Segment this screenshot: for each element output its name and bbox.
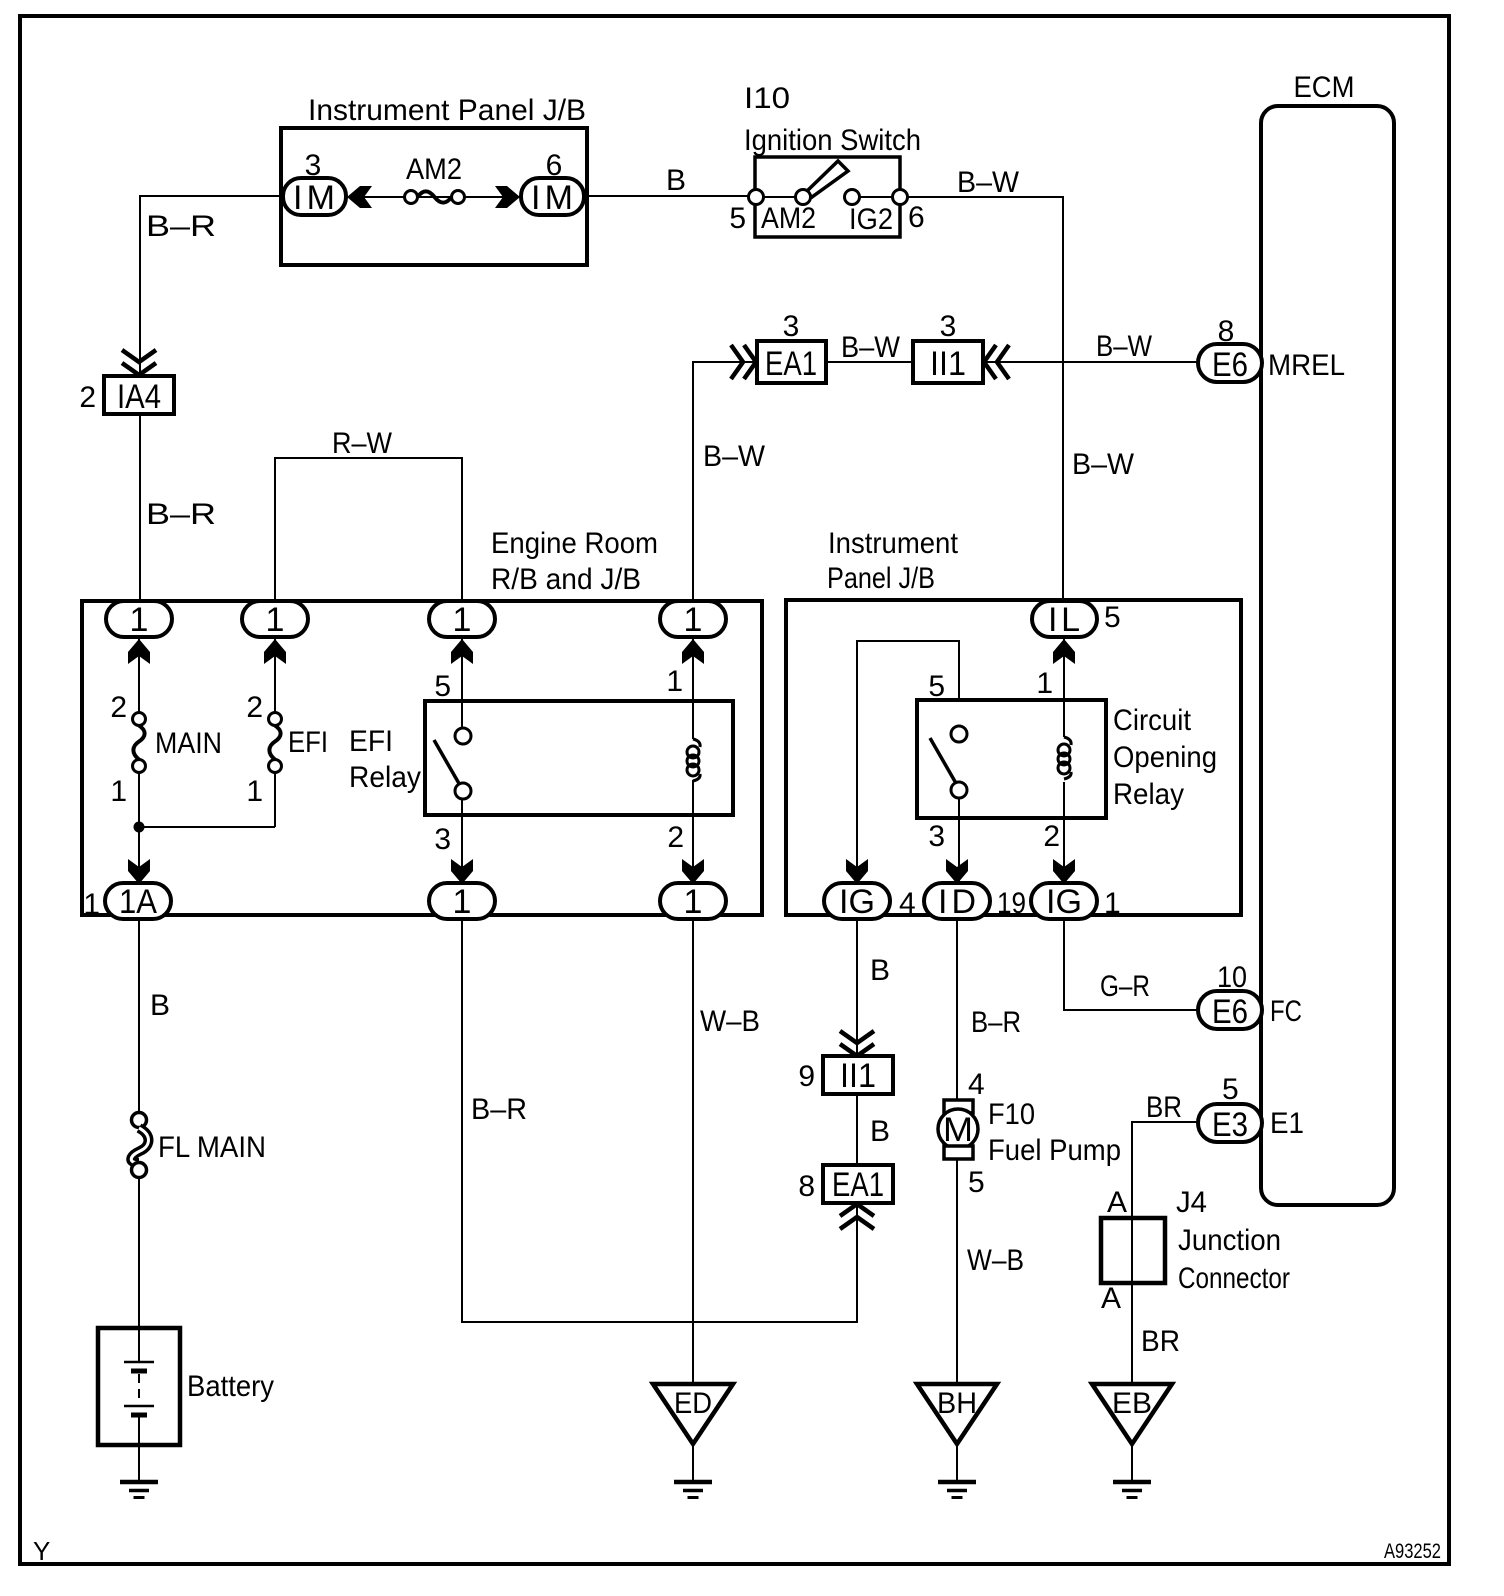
arrow down into IG pin1 connector [1053,859,1075,884]
svg-text:Circuit: Circuit [1113,704,1192,737]
wire B from battery 1A connector to FL MAIN [138,883,140,1113]
svg-text:2: 2 [246,691,263,724]
svg-text:B–R: B–R [471,1093,527,1126]
svg-text:IM: IM [293,179,335,217]
connector II1 pin 9 with chevrons [798,1031,893,1095]
svg-text:E6: E6 [1212,993,1248,1031]
wire Circuit Opening Relay coil pin2 to IG connector [1063,782,1065,883]
svg-text:B–R: B–R [146,210,216,243]
connector II1 pin 3 with chevrons [913,310,1009,383]
wire BR from ECM E1 E3 through J4 to EB ground [1132,1122,1197,1384]
svg-text:EFI: EFI [349,725,393,758]
wire ED triangle to ground [692,1444,694,1481]
wire II1 pin9 to EA1 pin8 (B) [856,1094,858,1165]
svg-text:B–R: B–R [146,498,216,531]
arrow down into oval 1 (relay pin3 bottom) [451,859,473,884]
connector E3 pin 5 E1 [1198,1073,1304,1144]
svg-text:2: 2 [1043,820,1060,853]
wire R-W bridge from EFI fuse to EFI relay pin5 [275,458,462,601]
svg-text:1: 1 [666,665,683,698]
Instrument Panel J/B (right) box [786,527,1241,915]
fuse EFI [246,691,328,808]
svg-text:A93252: A93252 [1384,1540,1441,1563]
svg-text:5: 5 [1104,601,1121,634]
svg-text:8: 8 [798,1170,815,1203]
wire MAIN fuse to junction and 1A connector [138,772,140,883]
bus arrow right (into IM pin6) [495,186,520,208]
wire FL MAIN to battery [138,1177,140,1362]
wire B-R from ID pin19 to fuel pump [956,883,958,1100]
svg-text:AM2: AM2 [406,153,462,186]
svg-text:R–W: R–W [332,427,393,460]
wire B-R from IA4 to Engine Room J/B [139,414,141,602]
COR switch pins 5-3 [928,670,967,853]
svg-text:5: 5 [968,1166,985,1199]
svg-text:IG: IG [839,883,875,921]
connector oval 1 (EFI fuse top) [242,601,308,639]
ignition switch I10 [729,82,924,237]
svg-text:Instrument: Instrument [828,527,959,560]
ground symbol (EB) [1113,1482,1151,1498]
fusible link FL MAIN [131,1113,266,1178]
wire B-W from ignition switch pin6 down to IL connector [900,197,1063,601]
svg-text:II1: II1 [930,345,966,383]
svg-text:B: B [666,164,686,197]
connector oval 1 (EFI relay pin5 top) [429,601,495,639]
svg-text:W–B: W–B [700,1005,760,1038]
wire bridge COR pin5 to IG pin4 connector [857,641,959,883]
svg-text:Relay: Relay [1113,778,1184,811]
connector 1A pin 1 [83,883,171,921]
wire battery internal dashes [138,1374,140,1404]
wire junction link MAIN to EFI [139,826,275,828]
svg-text:EA1: EA1 [832,1166,884,1204]
svg-text:Engine Room: Engine Room [491,527,658,560]
svg-text:2: 2 [79,381,96,414]
svg-text:W–B: W–B [967,1244,1024,1277]
wire EB triangle to ground [1131,1444,1133,1481]
svg-text:B–W: B–W [1072,448,1135,481]
wire IG pin4 down to II1 pin9 (B) [856,883,858,1056]
wire B-W between EA1 and II1 [826,361,913,363]
wire B-W from II1 pin3 to ECM MREL E6 [983,361,1198,363]
svg-text:3: 3 [928,820,945,853]
fuse AM2 [405,153,465,204]
svg-text:E3: E3 [1212,1106,1248,1144]
svg-text:1: 1 [1036,667,1053,700]
wire W-B from fuel pump to BH ground [956,1158,958,1384]
ground triangle BH [917,1384,997,1444]
EFI relay coil pins 1-2 [666,665,700,854]
junction connector J4 [1101,1186,1290,1315]
svg-text:Junction: Junction [1178,1224,1281,1257]
arrow up into oval 1 coil [682,639,704,664]
arrow down into ID pin19 connector [946,859,968,884]
svg-text:I10: I10 [744,82,790,115]
svg-text:Opening: Opening [1113,741,1217,774]
svg-text:II1: II1 [840,1057,876,1095]
wire G-R from IG pin1 to ECM FC E6 [1064,883,1198,1010]
svg-text:B–W: B–W [703,440,766,473]
arrow down into IG pin4 connector [846,859,868,884]
svg-text:5: 5 [729,202,746,235]
svg-text:B–W: B–W [957,166,1020,199]
svg-text:R/B and J/B: R/B and J/B [491,563,641,596]
svg-text:1: 1 [83,888,100,921]
svg-text:2: 2 [110,691,127,724]
COR coil pins 1-2 [1036,667,1071,853]
fuel pump F10 motor [938,1068,1121,1199]
svg-text:B–R: B–R [971,1006,1021,1039]
svg-text:M: M [943,1111,973,1149]
svg-text:5: 5 [1222,1073,1239,1106]
svg-text:Panel J/B: Panel J/B [827,562,935,595]
connector IM pin 3 [283,149,346,217]
junction node MAIN/EFI [134,822,145,833]
svg-text:1A: 1A [119,883,157,921]
arrow up into oval 1 relay [451,639,473,664]
connector oval 1 (EFI relay coil top) [660,601,726,639]
svg-text:Battery: Battery [187,1370,274,1403]
wire battery negative to ground [138,1415,140,1481]
svg-text:Fuel Pump: Fuel Pump [988,1134,1121,1167]
svg-text:J4: J4 [1176,1186,1207,1219]
svg-text:IM: IM [531,179,573,217]
svg-text:Connector: Connector [1178,1262,1290,1295]
svg-text:ECM: ECM [1294,71,1355,104]
svg-text:19: 19 [997,887,1026,920]
svg-text:4: 4 [968,1068,985,1101]
Circuit Opening Relay box [917,700,1217,818]
wire B from IM pin3 to IA4 (B-R) [140,196,283,376]
wire EFI relay coil pin1 column [692,601,694,739]
svg-text:BH: BH [937,1387,977,1420]
battery [98,1328,274,1445]
svg-text:1: 1 [684,883,703,921]
connector oval 1 (relay pin3 bottom) [429,883,495,921]
EFI relay switch pins 5-3 [434,670,471,856]
wire inside Instrument Panel J/B through fuse AM2 [346,196,521,198]
svg-text:9: 9 [798,1060,815,1093]
connector E6 pin 8 MREL [1198,315,1345,384]
svg-text:1: 1 [130,601,149,639]
connector oval 1 (coil pin2 bottom) [660,883,726,921]
svg-text:4: 4 [899,887,916,920]
wire IL connector to Circuit Opening Relay coil pin1 [1063,637,1065,737]
svg-text:5: 5 [928,670,945,703]
wire B from IM pin6 to ignition switch pin5 [585,195,756,197]
svg-text:EB: EB [1112,1387,1152,1420]
svg-text:5: 5 [434,670,451,703]
arrow up into oval 1 EFI [264,639,286,664]
svg-text:Y: Y [33,1536,50,1566]
Instrument Panel J/B (top) box [281,94,587,265]
connector IM pin 6 [521,149,584,217]
connector ID pin 19 [924,883,1026,921]
connector IL pin 5 [1032,601,1121,639]
svg-text:3: 3 [434,823,451,856]
connector oval 1 (MAIN fuse top) [106,601,172,639]
svg-text:IA4: IA4 [117,378,161,416]
svg-text:6: 6 [546,149,563,182]
wire EFI relay pin3 down and B-R run to EA1 pin8 [462,798,857,1322]
ground triangle ED [653,1384,733,1444]
svg-text:1: 1 [246,775,263,808]
svg-text:E1: E1 [1270,1107,1304,1140]
connector IA4 pin 2 with chevrons [79,350,174,416]
svg-text:IG2: IG2 [849,203,893,236]
svg-text:B–W: B–W [841,331,901,364]
svg-text:BR: BR [1146,1091,1182,1124]
ground symbol (battery) [120,1482,158,1498]
svg-text:G–R: G–R [1100,970,1150,1003]
arrow down into oval 1 (coil pin2 bottom) [682,859,704,884]
svg-text:3: 3 [940,310,957,343]
connector IG pin 1 [1031,883,1121,921]
fuse MAIN [110,691,222,808]
svg-text:B: B [150,989,170,1022]
svg-text:FC: FC [1270,995,1302,1028]
wire BH triangle to ground [956,1444,958,1481]
svg-text:ED: ED [674,1387,712,1420]
wire inside ignition switch IG2 contact [852,196,900,198]
connector E6 pin 10 FC [1198,961,1302,1031]
svg-text:6: 6 [908,201,925,234]
svg-text:3: 3 [305,149,322,182]
ECM box [1261,71,1394,1205]
svg-text:1: 1 [453,883,472,921]
arrow up into oval 1 MAIN [128,639,150,664]
wire B-W from EA1 pin3 corner down to Engine Room J/B oval [693,362,757,601]
svg-text:FL MAIN: FL MAIN [158,1131,266,1164]
EFI Relay box [349,701,733,815]
wire MAIN fuse column [138,602,140,713]
svg-text:8: 8 [1218,315,1235,348]
svg-text:IL: IL [1048,601,1080,639]
svg-text:F10: F10 [988,1098,1035,1131]
Engine Room R/B and J/B box [82,527,762,915]
svg-text:MREL: MREL [1268,349,1345,382]
arrow up into IL connector [1053,639,1075,664]
svg-text:IG: IG [1046,883,1082,921]
svg-text:1: 1 [453,601,472,639]
svg-text:A: A [1107,1186,1127,1219]
wire COR pin3 to ID connector [958,798,960,883]
svg-text:1: 1 [1104,887,1121,920]
svg-text:B: B [870,954,890,987]
svg-text:E6: E6 [1212,346,1248,384]
svg-text:B–W: B–W [1096,330,1153,363]
wire EFI relay pin5 column [461,601,463,729]
svg-text:ID: ID [938,883,976,921]
ground triangle EB [1092,1384,1172,1444]
svg-text:1: 1 [684,601,703,639]
svg-text:Relay: Relay [349,761,421,794]
wire inside ignition switch AM2 contact [756,196,803,198]
svg-text:MAIN: MAIN [155,727,222,760]
svg-text:Ignition Switch: Ignition Switch [744,124,921,157]
svg-text:2: 2 [667,821,684,854]
connector EA1 pin 3 with chevrons [731,310,826,383]
svg-text:AM2: AM2 [761,202,816,235]
wire W-B from EFI relay pin2 down to ED ground [692,780,694,1384]
svg-text:Instrument Panel J/B: Instrument Panel J/B [308,94,586,127]
svg-text:EA1: EA1 [765,345,817,383]
svg-text:1: 1 [110,775,127,808]
connector IG pin 4 [824,883,916,921]
arrow down into 1A connector [128,859,150,884]
ground symbol (BH) [938,1482,976,1498]
svg-text:EFI: EFI [288,726,328,759]
svg-text:1: 1 [266,601,285,639]
svg-text:3: 3 [783,310,800,343]
wire EFI fuse column [274,601,276,713]
svg-text:B: B [870,1115,890,1148]
svg-text:BR: BR [1141,1325,1180,1358]
bus arrow left (into IM pin3) [347,186,372,208]
svg-text:A: A [1101,1282,1121,1315]
wire EFI fuse bottom to junction [274,772,276,827]
connector EA1 pin 8 with chevrons [798,1165,893,1229]
ground symbol (ED) [674,1482,712,1498]
